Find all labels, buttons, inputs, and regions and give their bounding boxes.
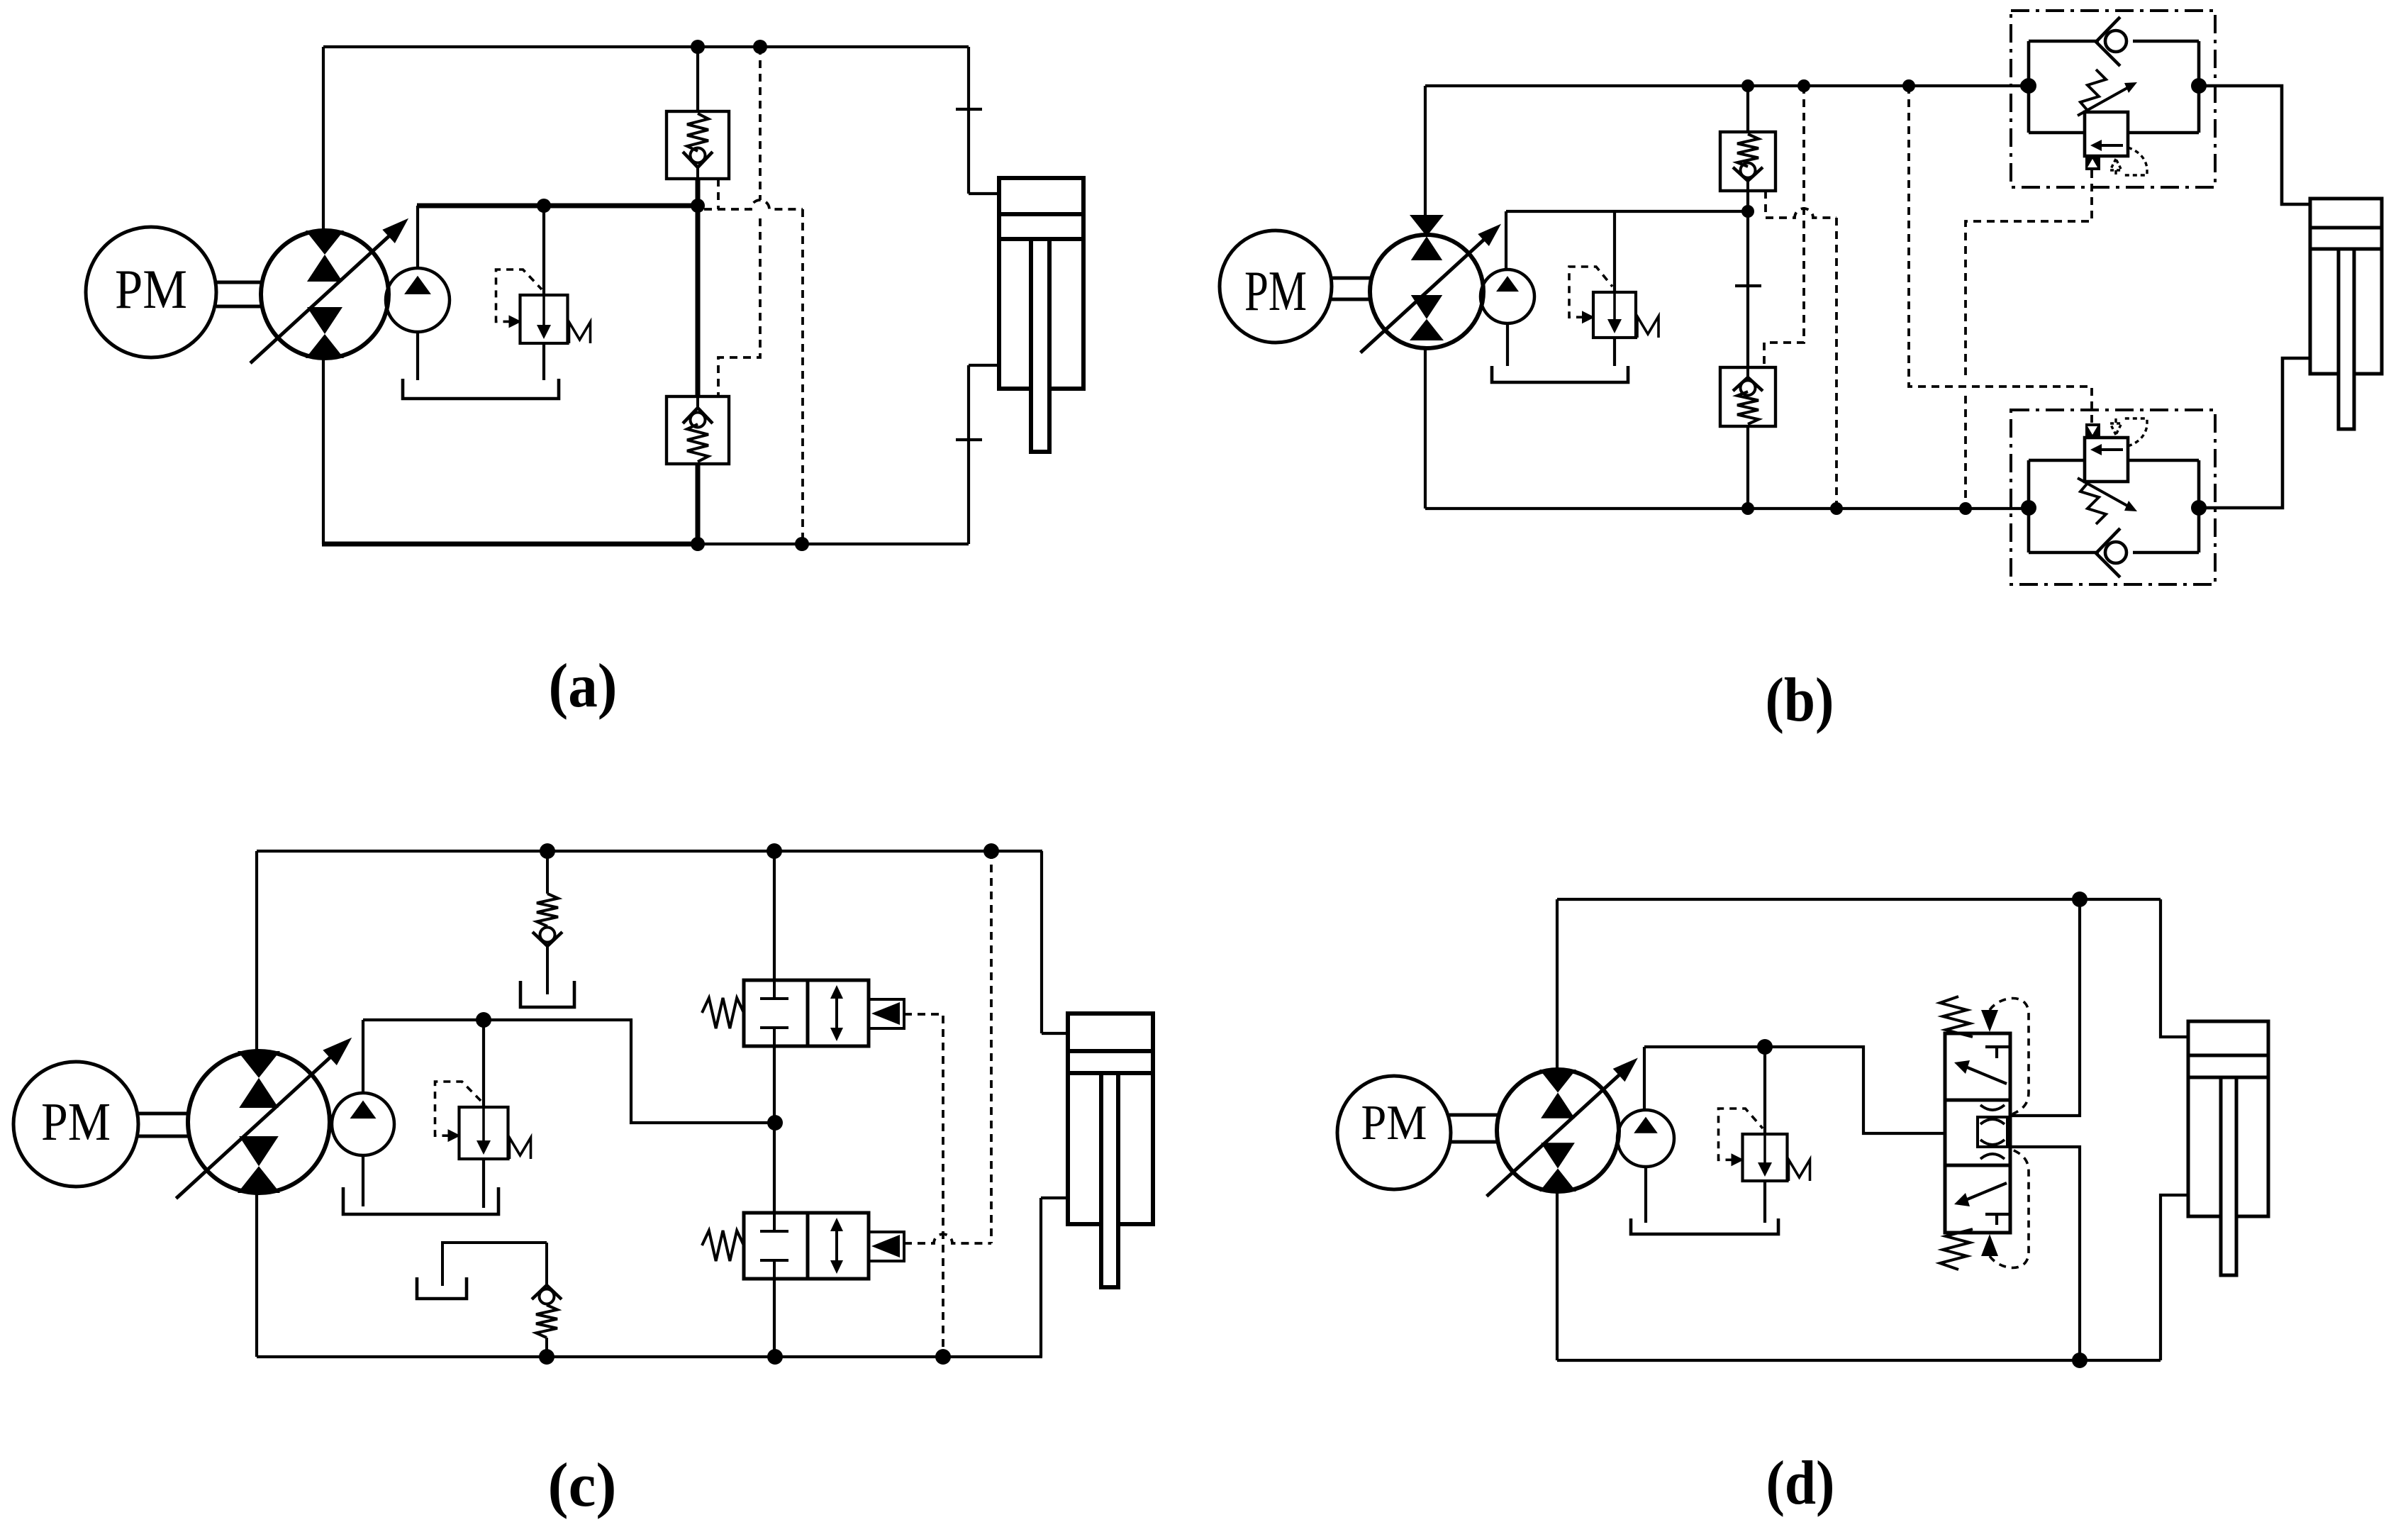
svg-text:PM: PM (1244, 260, 1307, 323)
shaft PM-pump (b) (1332, 278, 1370, 299)
svg-text:(a): (a) (549, 652, 618, 721)
subfigure (d): prime mover PM (1337, 1076, 1451, 1189)
node top-2 (a) (753, 40, 767, 54)
pilot line CV3 stub (b) (1764, 191, 1767, 218)
makeup check valve bottom (c) (532, 1243, 562, 1357)
wire valve column 1 (c) (773, 851, 776, 980)
wire bottom line thick (a) (322, 542, 698, 547)
relief valve (a) (496, 270, 591, 343)
wire pump bottom port (d) (1556, 1192, 1559, 1360)
node bottom-2 (a) (795, 537, 809, 551)
wire cylinder top feed (d) (2161, 899, 2188, 1037)
wire pump top port (b) (1424, 86, 1427, 235)
wire pump top port (d) (1556, 899, 1559, 1072)
svg-text:(d): (d) (1766, 1449, 1835, 1518)
makeup tank top (c) (520, 981, 574, 1007)
counterbalance valve assembly bottom (b) (2011, 410, 2215, 584)
port tick lower (a) (956, 438, 982, 441)
wire bottom line thin (a) (698, 543, 969, 545)
pilot line CV3 horizontal with hop (b) (1766, 209, 1836, 218)
variable displacement pump (b) (1361, 215, 1501, 352)
wire mid line (d) (1644, 1047, 1945, 1133)
wire check column lower (b) (1746, 426, 1749, 509)
node bottom-1 (c) (539, 1349, 554, 1365)
wire valve column 4 (c) (773, 1279, 776, 1357)
svg-text:PM: PM (1361, 1096, 1427, 1150)
node bottom-1 (a) (691, 537, 705, 551)
pilot line CB-bottom from top line (b) (1909, 86, 2092, 423)
hydraulic cylinder (c) (1068, 1014, 1153, 1287)
node CB-top right (b) (2191, 78, 2207, 94)
hydraulic cylinder (d) (2188, 1021, 2268, 1275)
wire relief outlet (c) (482, 1159, 485, 1208)
wire pump top port to top line (a) (322, 47, 325, 231)
wire bottom line (d) (1557, 1359, 2161, 1362)
charge pump (c) (332, 1093, 394, 1155)
shaft PM-pump (c) (138, 1114, 189, 1136)
relief valve (d) (1719, 1109, 1810, 1181)
node mid-1 (c) (476, 1012, 491, 1028)
node bottom-3 (c) (935, 1349, 951, 1365)
node top-1 (a) (691, 40, 705, 54)
node bottom-1 (b) (1741, 502, 1754, 515)
check valve CV4 (b) (1720, 367, 1776, 426)
wire valve column 2 (c) (773, 1046, 776, 1123)
wire check column mid thick (a) (696, 179, 701, 396)
label (a) (549, 652, 618, 721)
subfigure (b): prime mover PM (1220, 231, 1332, 343)
hydraulic cylinder (b) (2310, 199, 2382, 429)
wire charge pump drain (c) (362, 1155, 364, 1206)
svg-text:(b): (b) (1766, 666, 1834, 735)
wire pump bottom port (a) (322, 358, 325, 544)
wire cylinder bottom feed (d) (2161, 1195, 2188, 1360)
wire right vertical upper (a) (967, 47, 970, 194)
wire right vertical lower (c) (1039, 1198, 1042, 1357)
node top-3 (b) (1902, 79, 1915, 92)
variable displacement pump (a) (250, 218, 408, 363)
node bottom-4 (b) (2022, 502, 2035, 515)
wire charge pump drain (b) (1506, 323, 1509, 366)
solenoid valve SV2 (c) (702, 1213, 904, 1279)
node mid-2 (a) (691, 199, 705, 213)
wire check column mid (b) (1746, 191, 1749, 367)
makeup check valve top (c) (533, 851, 562, 994)
wire charge pump riser (a) (416, 206, 419, 269)
port tick upper (a) (956, 108, 982, 111)
node bottom-2 (c) (767, 1349, 783, 1365)
node mid-2 (c) (767, 1115, 783, 1131)
node mid-1 (a) (537, 199, 551, 213)
pilot-operated check valve CV2 (a) (667, 396, 729, 464)
pilot line horizontal with hop (a) (704, 200, 803, 209)
charge pump (a) (386, 268, 450, 332)
wire relief outlet (a) (542, 343, 545, 380)
wire check column lower thick (a) (696, 463, 701, 544)
node top-4 (b) (2020, 79, 2033, 92)
pilot line CV3 to bottom line (b) (1835, 218, 1838, 509)
node top-1 (c) (540, 843, 555, 859)
tank (d) (1631, 1218, 1778, 1234)
pilot line SV2 from top with hop (c) (904, 851, 991, 1243)
wire DCV port A (d) (2010, 899, 2080, 1116)
node CB-top left (b) (2021, 78, 2036, 94)
makeup tank bottom (c) (417, 1277, 467, 1299)
wire bottom line (b) (1425, 507, 2029, 510)
wire check column upper (b) (1746, 86, 1749, 132)
wire cylinder top port (a) (969, 192, 999, 195)
node bottom-3 (b) (1959, 502, 1972, 515)
tank (a) (403, 379, 559, 399)
wire charge pump drain (d) (1644, 1167, 1647, 1223)
wire charge pump riser (b) (1505, 211, 1507, 270)
wire relief supply (c) (482, 1020, 485, 1107)
relief valve (c) (435, 1082, 531, 1159)
wire CB-top to cylinder (b) (2199, 86, 2310, 204)
wire pump bottom port (c) (255, 1193, 258, 1357)
wire top line (a) (323, 45, 969, 48)
svg-text:PM: PM (115, 258, 187, 320)
node bottom-2 (b) (1830, 502, 1843, 515)
svg-text:PM: PM (41, 1092, 111, 1152)
wire top line (b) (1425, 84, 2027, 87)
pilot line from top node (a) (718, 47, 760, 396)
node CB-bottom right (b) (2191, 500, 2207, 516)
wire mid line (b) (1506, 210, 1748, 213)
subfigure (c): prime mover PM (13, 1062, 138, 1187)
wire right vertical lower (a) (967, 365, 970, 544)
node top-2 (c) (767, 843, 782, 859)
wire pump bottom port (b) (1424, 348, 1427, 509)
check valve CV3 (b) (1720, 132, 1776, 191)
node top-3 (c) (983, 843, 999, 859)
wire charge pump riser (d) (1643, 1047, 1646, 1111)
relief valve (b) (1569, 267, 1659, 338)
wire relief outlet (d) (1763, 1181, 1766, 1223)
tank mid (c) (343, 1187, 498, 1214)
charge pump (b) (1481, 270, 1534, 323)
node bottom (d) (2072, 1353, 2088, 1368)
shaft PM-pump (a) (216, 282, 262, 306)
wire cylinder bottom port (c) (1041, 1196, 1068, 1199)
wire bottom line (c) (257, 1355, 1042, 1358)
wire DCV port B (d) (2010, 1147, 2080, 1360)
pilot-operated check valve CV1 (a) (667, 111, 729, 179)
node mid (d) (1757, 1039, 1773, 1055)
wire relief supply (b) (1613, 211, 1616, 292)
pilot line CB-top to bottom line (b) (1966, 170, 2092, 509)
charge pump (d) (1617, 1110, 1674, 1167)
wire valve column 3 (c) (773, 1123, 776, 1213)
wire cylinder bottom port (a) (969, 364, 999, 367)
wire relief supply (d) (1763, 1047, 1766, 1134)
tank (b) (1492, 366, 1628, 382)
shaft PM-pump (d) (1449, 1115, 1498, 1142)
wire CB-bottom to cylinder (b) (2199, 358, 2310, 508)
wire charge pump drain (a) (416, 332, 419, 380)
wire charge pump riser (c) (362, 1020, 364, 1093)
counterbalance valve assembly top (b) (2011, 11, 2215, 187)
node CB-bottom left (b) (2021, 500, 2036, 516)
wire relief outlet (b) (1613, 338, 1616, 366)
wire mid line (c) (363, 1020, 775, 1123)
wire pump top port (c) (255, 851, 258, 1051)
wire makeup bottom to tank (c) (442, 1243, 547, 1286)
label (b) (1766, 666, 1834, 735)
node top (d) (2072, 892, 2088, 907)
directional control valve DCV (d) (1940, 996, 2029, 1270)
node top-2 (b) (1797, 79, 1810, 92)
port tick mid column (b) (1735, 284, 1761, 287)
wire cylinder top port (c) (1042, 1032, 1068, 1035)
subfigure (a): prime mover PM (86, 227, 216, 357)
wire right vertical upper (c) (1040, 851, 1043, 1033)
pilot line CV4 from top line (b) (1764, 86, 1804, 367)
pilot line to bottom node (a) (801, 209, 804, 544)
wire top line (d) (1557, 898, 2161, 901)
variable displacement pump (d) (1487, 1058, 1638, 1196)
variable displacement pump (c) (176, 1038, 352, 1199)
wire mid line thick (a) (417, 204, 698, 209)
solenoid valve SV1 (c) (702, 980, 904, 1046)
wire relief supply (a) (542, 206, 545, 295)
node top-1 (b) (1741, 79, 1754, 92)
label (c) (548, 1451, 617, 1520)
node mid (b) (1741, 205, 1754, 218)
hydraulic cylinder (a) (999, 178, 1083, 452)
wire top line (c) (257, 850, 1042, 853)
wire check column upper (a) (696, 47, 699, 111)
label (d) (1766, 1449, 1835, 1518)
pilot line CV1 stub (a) (717, 179, 720, 209)
svg-text:(c): (c) (548, 1451, 617, 1520)
pilot line SV1 to bottom (c) (904, 1014, 943, 1357)
